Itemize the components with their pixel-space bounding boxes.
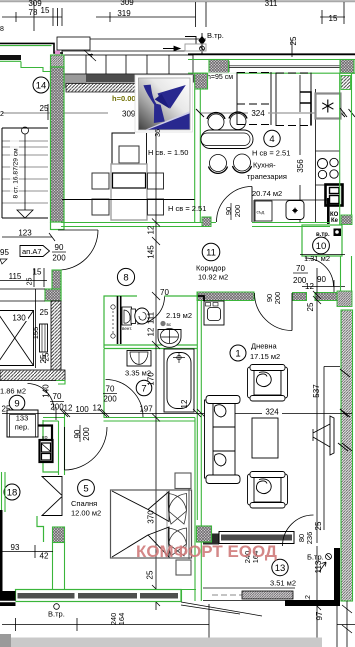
svg-text:25: 25 [314, 521, 323, 530]
svg-text:95: 95 [0, 248, 9, 257]
bedroom west hatch block [53, 527, 65, 543]
svg-text:70: 70 [296, 264, 305, 273]
dim line 309 gray [2, 112, 108, 114]
svg-text:10: 10 [316, 241, 327, 252]
svg-text:12: 12 [305, 595, 312, 603]
svg-text:съд: съд [257, 210, 265, 215]
svg-text:123: 123 [18, 229, 32, 238]
left black wall blocks bottom [0, 591, 16, 606]
TV [330, 416, 334, 455]
corridor north wall left segment [61, 223, 216, 227]
dishwasher box sud [255, 201, 272, 221]
dim 130 [10, 312, 28, 323]
balcony railing [203, 588, 295, 601]
svg-text:12.00 м2: 12.00 м2 [71, 509, 101, 518]
svg-text:25: 25 [289, 36, 298, 45]
bedroom south window band [16, 590, 182, 602]
bar stool 3 [209, 155, 228, 174]
entrance door arc [58, 230, 98, 270]
upper balcony green line [0, 45, 52, 47]
svg-text:12: 12 [180, 399, 189, 408]
svg-text:93: 93 [11, 543, 20, 552]
circled 7 [136, 380, 152, 396]
living hatch block left [197, 526, 212, 542]
svg-text:Кухня-: Кухня- [253, 161, 276, 170]
bottom page gray band [0, 638, 322, 647]
washing machine [204, 301, 224, 325]
upper neighbour balcony black parapet [0, 43, 63, 53]
svg-text:8: 8 [123, 273, 128, 284]
WC toilet [131, 309, 136, 324]
svg-text:В.тр.: В.тр. [207, 31, 224, 40]
upper line y51 with arrow [62, 39, 190, 58]
elevator shaft [0, 311, 34, 366]
corridor washbasin [158, 330, 181, 348]
right dim chain vertical [313, 268, 321, 543]
circled 14 [33, 77, 49, 93]
svg-text:309: 309 [120, 0, 134, 7]
svg-text:200: 200 [52, 254, 66, 263]
circled 4 [264, 130, 280, 146]
svg-text:309: 309 [122, 110, 136, 119]
door label 70/200 vent [0, 0, 1, 1]
svg-text:111: 111 [147, 311, 156, 324]
circled 11 [202, 243, 220, 261]
circled 18 [4, 484, 20, 500]
upper counter gray block [62, 75, 86, 89]
upper balcony box [57, 37, 90, 50]
bed mattress [111, 490, 192, 558]
circled 9 [9, 395, 25, 411]
svg-text:537: 537 [312, 384, 321, 398]
svg-text:25: 25 [40, 308, 49, 317]
dim line y286 [302, 286, 345, 288]
svg-text:200: 200 [103, 395, 117, 404]
svg-text:15: 15 [41, 6, 50, 15]
svg-text:КОМФОРТ ЕООД: КОМФОРТ ЕООД [136, 542, 277, 561]
circled 8 [117, 268, 134, 285]
svg-text:17.15 м2: 17.15 м2 [250, 352, 280, 361]
ap.A7 flag label [20, 246, 50, 257]
bed pillows [168, 494, 186, 557]
kitchen window glazing [229, 65, 340, 67]
upper-left black band [0, 55, 21, 60]
svg-text:90: 90 [73, 429, 82, 438]
svg-text:311: 311 [265, 0, 278, 8]
svg-text:18: 18 [7, 488, 18, 499]
bathroom 7 sink [127, 351, 151, 367]
svg-text:370: 370 [147, 510, 156, 524]
bed blanket fold [112, 491, 169, 557]
armchair 1 [248, 365, 288, 402]
right wall tick marks [338, 108, 352, 451]
living door arc [255, 293, 293, 331]
svg-text:164: 164 [117, 613, 126, 626]
svg-text:70: 70 [106, 385, 115, 394]
armchair 2 [248, 472, 288, 509]
svg-text:200: 200 [273, 292, 282, 305]
svg-text:Б.тр.: Б.тр. [307, 553, 324, 562]
svg-text:12: 12 [147, 225, 156, 234]
vent room black icon [334, 229, 342, 237]
bedroom west wall band down [53, 542, 65, 589]
upper apartment line y39 [62, 38, 206, 40]
bathtub [164, 349, 194, 412]
dining chair top [119, 146, 139, 163]
left core wall diagonal band [51, 301, 61, 372]
right wall dark corner block [337, 291, 352, 307]
svg-text:h=95 см: h=95 см [207, 74, 233, 81]
kitchen corner hatch block [195, 73, 208, 89]
svg-text:Коридор: Коридор [196, 264, 226, 273]
company logo frame [135, 75, 193, 132]
corridor north wall right segment [252, 223, 330, 227]
circled 1 [230, 345, 246, 361]
right wall hatch blocks [341, 76, 351, 90]
living south window [219, 532, 294, 544]
bedroom door label 90/200 rotated [73, 427, 91, 441]
svg-text:324: 324 [265, 408, 279, 417]
upper kitchen cabinet row [62, 55, 193, 74]
circled 5 [78, 480, 95, 497]
kitchen island dashed rect 1 [237, 72, 271, 125]
kitchen/dining divider green wall [195, 89, 201, 222]
svg-text:1.86 м2: 1.86 м2 [0, 387, 26, 396]
corridor-living wall hatch right [293, 293, 307, 301]
stairs label rotated [10, 140, 19, 202]
svg-text:8 ст. 16.87/29 см: 8 ст. 16.87/29 см [13, 148, 20, 199]
svg-text:145: 145 [147, 245, 156, 259]
svg-text:78: 78 [29, 8, 38, 17]
storage door arc [28, 384, 55, 411]
svg-text:ап.А7: ап.А7 [22, 247, 42, 256]
door jamb rect [40, 324, 48, 352]
svg-text:25: 25 [39, 354, 48, 363]
balcony bottom dims [313, 546, 355, 647]
svg-text:12: 12 [64, 404, 73, 413]
svg-text:трапезария: трапезария [247, 172, 287, 181]
dining chairs right [148, 173, 164, 215]
kitchen top wall hatch block right [340, 60, 354, 74]
nightstand top [175, 473, 191, 489]
WC partition double line [117, 296, 119, 344]
main dim chain y413 [2, 407, 352, 420]
svg-text:236: 236 [305, 532, 314, 545]
svg-text:197: 197 [139, 405, 153, 414]
bar counter [201, 130, 253, 149]
svg-text:3.51 м2: 3.51 м2 [270, 579, 296, 588]
living door label 90/200 rotated [265, 292, 282, 305]
floor hatch strip h=0.00 [66, 84, 136, 93]
floor drain dot [160, 321, 165, 326]
svg-text:155: 155 [31, 327, 40, 340]
svg-text:5: 5 [83, 484, 88, 495]
svg-text:100: 100 [75, 405, 89, 414]
nightstand bottom [176, 560, 191, 575]
svg-text:115: 115 [9, 272, 22, 281]
svg-text:25: 25 [306, 302, 315, 311]
svg-text:70: 70 [160, 288, 169, 297]
svg-text:Спалня: Спалня [71, 499, 97, 508]
svg-text:12: 12 [147, 327, 156, 336]
svg-text:25: 25 [27, 278, 34, 286]
kitchen sink [286, 201, 304, 220]
svg-text:вент.: вент. [122, 326, 132, 331]
V.tr. bottom label [54, 604, 60, 610]
left green verticals below storage [2, 472, 44, 512]
island black edge details [300, 92, 311, 125]
svg-text:130: 130 [12, 314, 26, 323]
black wall bit right of sink [327, 198, 330, 224]
dining corner lines [112, 133, 135, 164]
balcony black wall bottom [285, 600, 340, 606]
svg-text:25: 25 [40, 104, 49, 113]
dim 93 42 [2, 551, 53, 553]
svg-text:14: 14 [36, 81, 47, 92]
ceiling height boundary line [62, 199, 195, 201]
svg-text:200: 200 [82, 427, 91, 441]
right wall upper green lines [340, 73, 352, 225]
bottom dim line [2, 604, 209, 640]
svg-text:12: 12 [93, 404, 102, 413]
sofa [205, 396, 241, 484]
left exterior wall hatched [51, 55, 65, 67]
bedroom north wall green [43, 418, 195, 422]
cooktop box with asterisk [316, 94, 341, 119]
WC sink [122, 307, 132, 325]
balcony black wall right [334, 548, 340, 605]
stairs walk line with arrow [17, 127, 33, 218]
balcony door arc [283, 515, 314, 546]
svg-text:2: 2 [0, 111, 4, 118]
boiler black box [38, 426, 53, 441]
svg-text:20.74 м2: 20.74 м2 [252, 189, 282, 198]
kitchen right counter strip [316, 89, 341, 222]
dining chairs left [92, 173, 109, 215]
svg-text:97: 97 [315, 611, 324, 620]
svg-text:Ке: Ке [331, 218, 339, 224]
svg-text:вс: вс [167, 322, 172, 327]
circled 10 [313, 237, 330, 254]
svg-text:Н св = 2.51: Н св = 2.51 [252, 149, 290, 158]
dim line 324 kitchen [200, 112, 345, 114]
terrace dashed line [212, 594, 260, 596]
dim 115 [0, 280, 47, 282]
svg-text:70: 70 [53, 392, 62, 401]
svg-text:Н св. = 1.50: Н св. = 1.50 [148, 148, 188, 157]
kitchen sink counter band [254, 200, 327, 222]
fridge [326, 185, 343, 206]
circled 13 [272, 559, 288, 575]
svg-text:пер.: пер. [15, 423, 30, 432]
pink wall marker [55, 51, 60, 56]
bedroom double-wing door [42, 477, 62, 516]
right exterior wall green lines upper [341, 256, 352, 291]
stove burners [318, 158, 339, 178]
svg-text:9: 9 [14, 399, 19, 410]
kitchen door label 90/200 rotated [224, 205, 242, 218]
svg-text:170: 170 [147, 372, 156, 386]
vent room 10 green walls [302, 225, 342, 256]
corridor north wall hatch block [202, 217, 211, 227]
living south wall black blocks [203, 534, 219, 545]
svg-text:90: 90 [317, 275, 326, 284]
corridor-living wall hatch left [197, 292, 254, 301]
dining table [111, 164, 147, 220]
upper corner lines [185, 37, 196, 45]
bar stool 4 [233, 154, 252, 173]
vertical dim chain x156 [152, 133, 160, 610]
bath-living green wall [197, 292, 201, 520]
svg-text:113: 113 [314, 560, 323, 573]
svg-text:200: 200 [233, 205, 242, 218]
svg-text:h=0.00: h=0.00 [112, 94, 136, 103]
kitchen island dashed rect 2 [276, 73, 311, 127]
direction arrow [163, 46, 180, 50]
svg-text:В.тр.: В.тр. [48, 610, 65, 619]
horizontal lines left core [0, 289, 45, 368]
entrance lower wall L hatch [45, 270, 61, 301]
WC room green outline [104, 296, 197, 417]
dim 324 living [262, 407, 282, 417]
kitchen top wall hatch block left [209, 60, 229, 74]
svg-text:11: 11 [206, 248, 216, 259]
bathroom door arc [106, 380, 144, 418]
company logo [139, 78, 191, 130]
TV unit line [324, 367, 340, 531]
svg-text:324: 324 [251, 109, 265, 118]
svg-text:42: 42 [40, 552, 49, 561]
133 per box [7, 410, 38, 437]
svg-text:319: 319 [117, 9, 131, 18]
V.tr. flag symbol [199, 33, 205, 54]
kitchen door arc [217, 187, 253, 223]
bar stool 1 [207, 113, 225, 130]
svg-text:2.19 м2: 2.19 м2 [166, 311, 192, 320]
WC vent symbols column [111, 305, 115, 338]
right exterior wall hatch band [341, 310, 353, 601]
svg-text:4: 4 [269, 134, 274, 145]
stairs block [2, 141, 48, 203]
upper counter dark band [86, 75, 206, 83]
dimension chain top y17 [2, 2, 345, 31]
top page edge line [0, 0, 355, 2]
svg-text:Дневна: Дневна [251, 342, 278, 351]
bedroom west wall green [59, 414, 65, 475]
svg-text:13: 13 [275, 563, 286, 574]
dim 123 [2, 236, 52, 238]
bedroom east wall green pair [182, 418, 202, 602]
kitchen top wall window band [188, 60, 355, 74]
bedroom west lower wall steps [37, 516, 44, 542]
h=95 label [207, 73, 238, 82]
kitchen top wall black line [188, 53, 355, 55]
bedroom terrace diagonals [181, 602, 262, 616]
balcony door label 80/236 rotated [297, 532, 314, 545]
coffee table [252, 418, 278, 458]
dining bench [113, 173, 146, 188]
svg-text:Н св = 2.51: Н св = 2.51 [168, 204, 206, 213]
svg-text:25: 25 [146, 570, 155, 579]
svg-text:90: 90 [224, 207, 233, 215]
svg-text:133: 133 [16, 414, 29, 423]
bar stool 2 [229, 112, 247, 129]
svg-text:10.92 м2: 10.92 м2 [198, 273, 228, 282]
svg-text:200: 200 [50, 403, 64, 412]
svg-text:15: 15 [329, 14, 338, 23]
vent room door arc [305, 258, 334, 287]
svg-text:356: 356 [296, 159, 305, 173]
storage room green outline [43, 420, 59, 472]
dim label 324 kitchen [248, 108, 268, 119]
svg-text:90: 90 [55, 243, 64, 252]
svg-text:8: 8 [0, 26, 4, 33]
bedroom door arc [65, 427, 108, 470]
core wall horizontal hatch band [0, 370, 65, 381]
svg-text:1: 1 [235, 349, 240, 360]
